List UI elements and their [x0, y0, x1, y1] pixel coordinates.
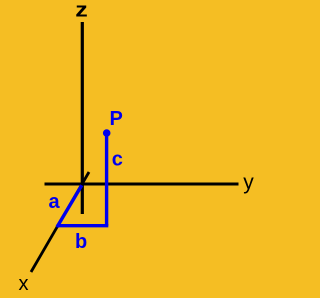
- svg-text:x: x: [19, 273, 29, 295]
- z-axis: [81, 22, 84, 214]
- x-axis: [31, 172, 89, 272]
- svg-text:c: c: [112, 149, 123, 171]
- svg-text:a: a: [49, 191, 61, 213]
- svg-text:P: P: [110, 108, 123, 130]
- segment b: [57, 224, 109, 227]
- segment c: [105, 133, 108, 226]
- svg-text:z: z: [75, 0, 87, 21]
- svg-text:y: y: [243, 171, 254, 194]
- point P dot: [103, 129, 111, 137]
- y-axis: [45, 182, 239, 185]
- svg-text:b: b: [75, 231, 87, 253]
- segment a: [57, 185, 82, 227]
